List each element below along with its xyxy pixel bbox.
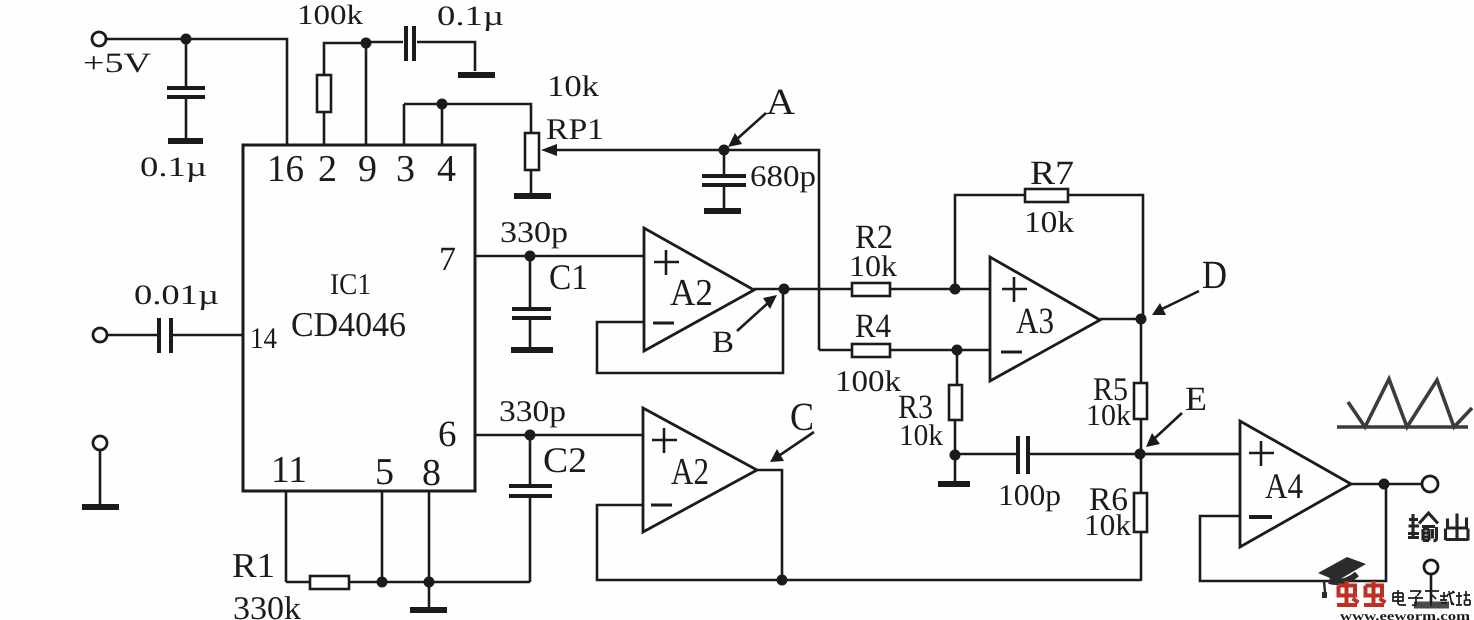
svg-text:330p: 330p bbox=[500, 216, 568, 249]
svg-text:C2: C2 bbox=[543, 440, 587, 480]
svg-text:9: 9 bbox=[358, 148, 377, 190]
svg-text:A2: A2 bbox=[671, 451, 709, 493]
svg-text:100k: 100k bbox=[835, 365, 901, 398]
svg-text:A: A bbox=[766, 82, 795, 123]
svg-text:100p: 100p bbox=[998, 479, 1061, 512]
svg-text:E: E bbox=[1185, 381, 1207, 418]
svg-text:B: B bbox=[712, 324, 734, 359]
svg-text:A2: A2 bbox=[670, 272, 713, 314]
svg-text:330p: 330p bbox=[499, 395, 566, 428]
svg-text:R7: R7 bbox=[1030, 155, 1074, 192]
svg-text:R1: R1 bbox=[232, 546, 275, 585]
svg-text:3: 3 bbox=[396, 148, 415, 190]
svg-text:14: 14 bbox=[250, 322, 277, 355]
svg-text:8: 8 bbox=[422, 452, 441, 494]
svg-text:A4: A4 bbox=[1265, 466, 1303, 506]
svg-text:11: 11 bbox=[271, 449, 307, 491]
svg-text:330k: 330k bbox=[233, 591, 302, 620]
svg-text:CD4046: CD4046 bbox=[291, 305, 406, 344]
svg-text:10k: 10k bbox=[849, 250, 897, 283]
svg-text:0.1µ: 0.1µ bbox=[140, 152, 207, 183]
svg-text:R4: R4 bbox=[855, 308, 891, 345]
svg-text:0.1µ: 0.1µ bbox=[437, 1, 504, 32]
svg-text:2: 2 bbox=[318, 148, 337, 190]
svg-text:C: C bbox=[790, 394, 814, 439]
svg-text:680p: 680p bbox=[750, 160, 816, 193]
svg-text:+5V: +5V bbox=[83, 48, 151, 79]
svg-text:0.01µ: 0.01µ bbox=[134, 280, 219, 311]
svg-text:A3: A3 bbox=[1016, 301, 1054, 342]
svg-text:5: 5 bbox=[375, 451, 394, 493]
svg-text:16: 16 bbox=[267, 148, 304, 190]
svg-text:www.eeworm.com: www.eeworm.com bbox=[1340, 609, 1471, 620]
svg-text:4: 4 bbox=[437, 148, 456, 190]
svg-text:D: D bbox=[1202, 252, 1227, 297]
svg-text:100k: 100k bbox=[297, 0, 363, 31]
svg-text:6: 6 bbox=[438, 414, 457, 455]
svg-text:10k: 10k bbox=[547, 70, 599, 103]
svg-text:7: 7 bbox=[439, 241, 456, 278]
svg-text:C1: C1 bbox=[549, 257, 588, 297]
svg-text:10k: 10k bbox=[899, 419, 943, 452]
svg-text:RP1: RP1 bbox=[546, 113, 604, 146]
svg-text:10k: 10k bbox=[1024, 206, 1074, 239]
svg-text:10k: 10k bbox=[1084, 509, 1131, 542]
svg-text:IC1: IC1 bbox=[330, 268, 371, 301]
svg-text:10k: 10k bbox=[1086, 399, 1131, 432]
